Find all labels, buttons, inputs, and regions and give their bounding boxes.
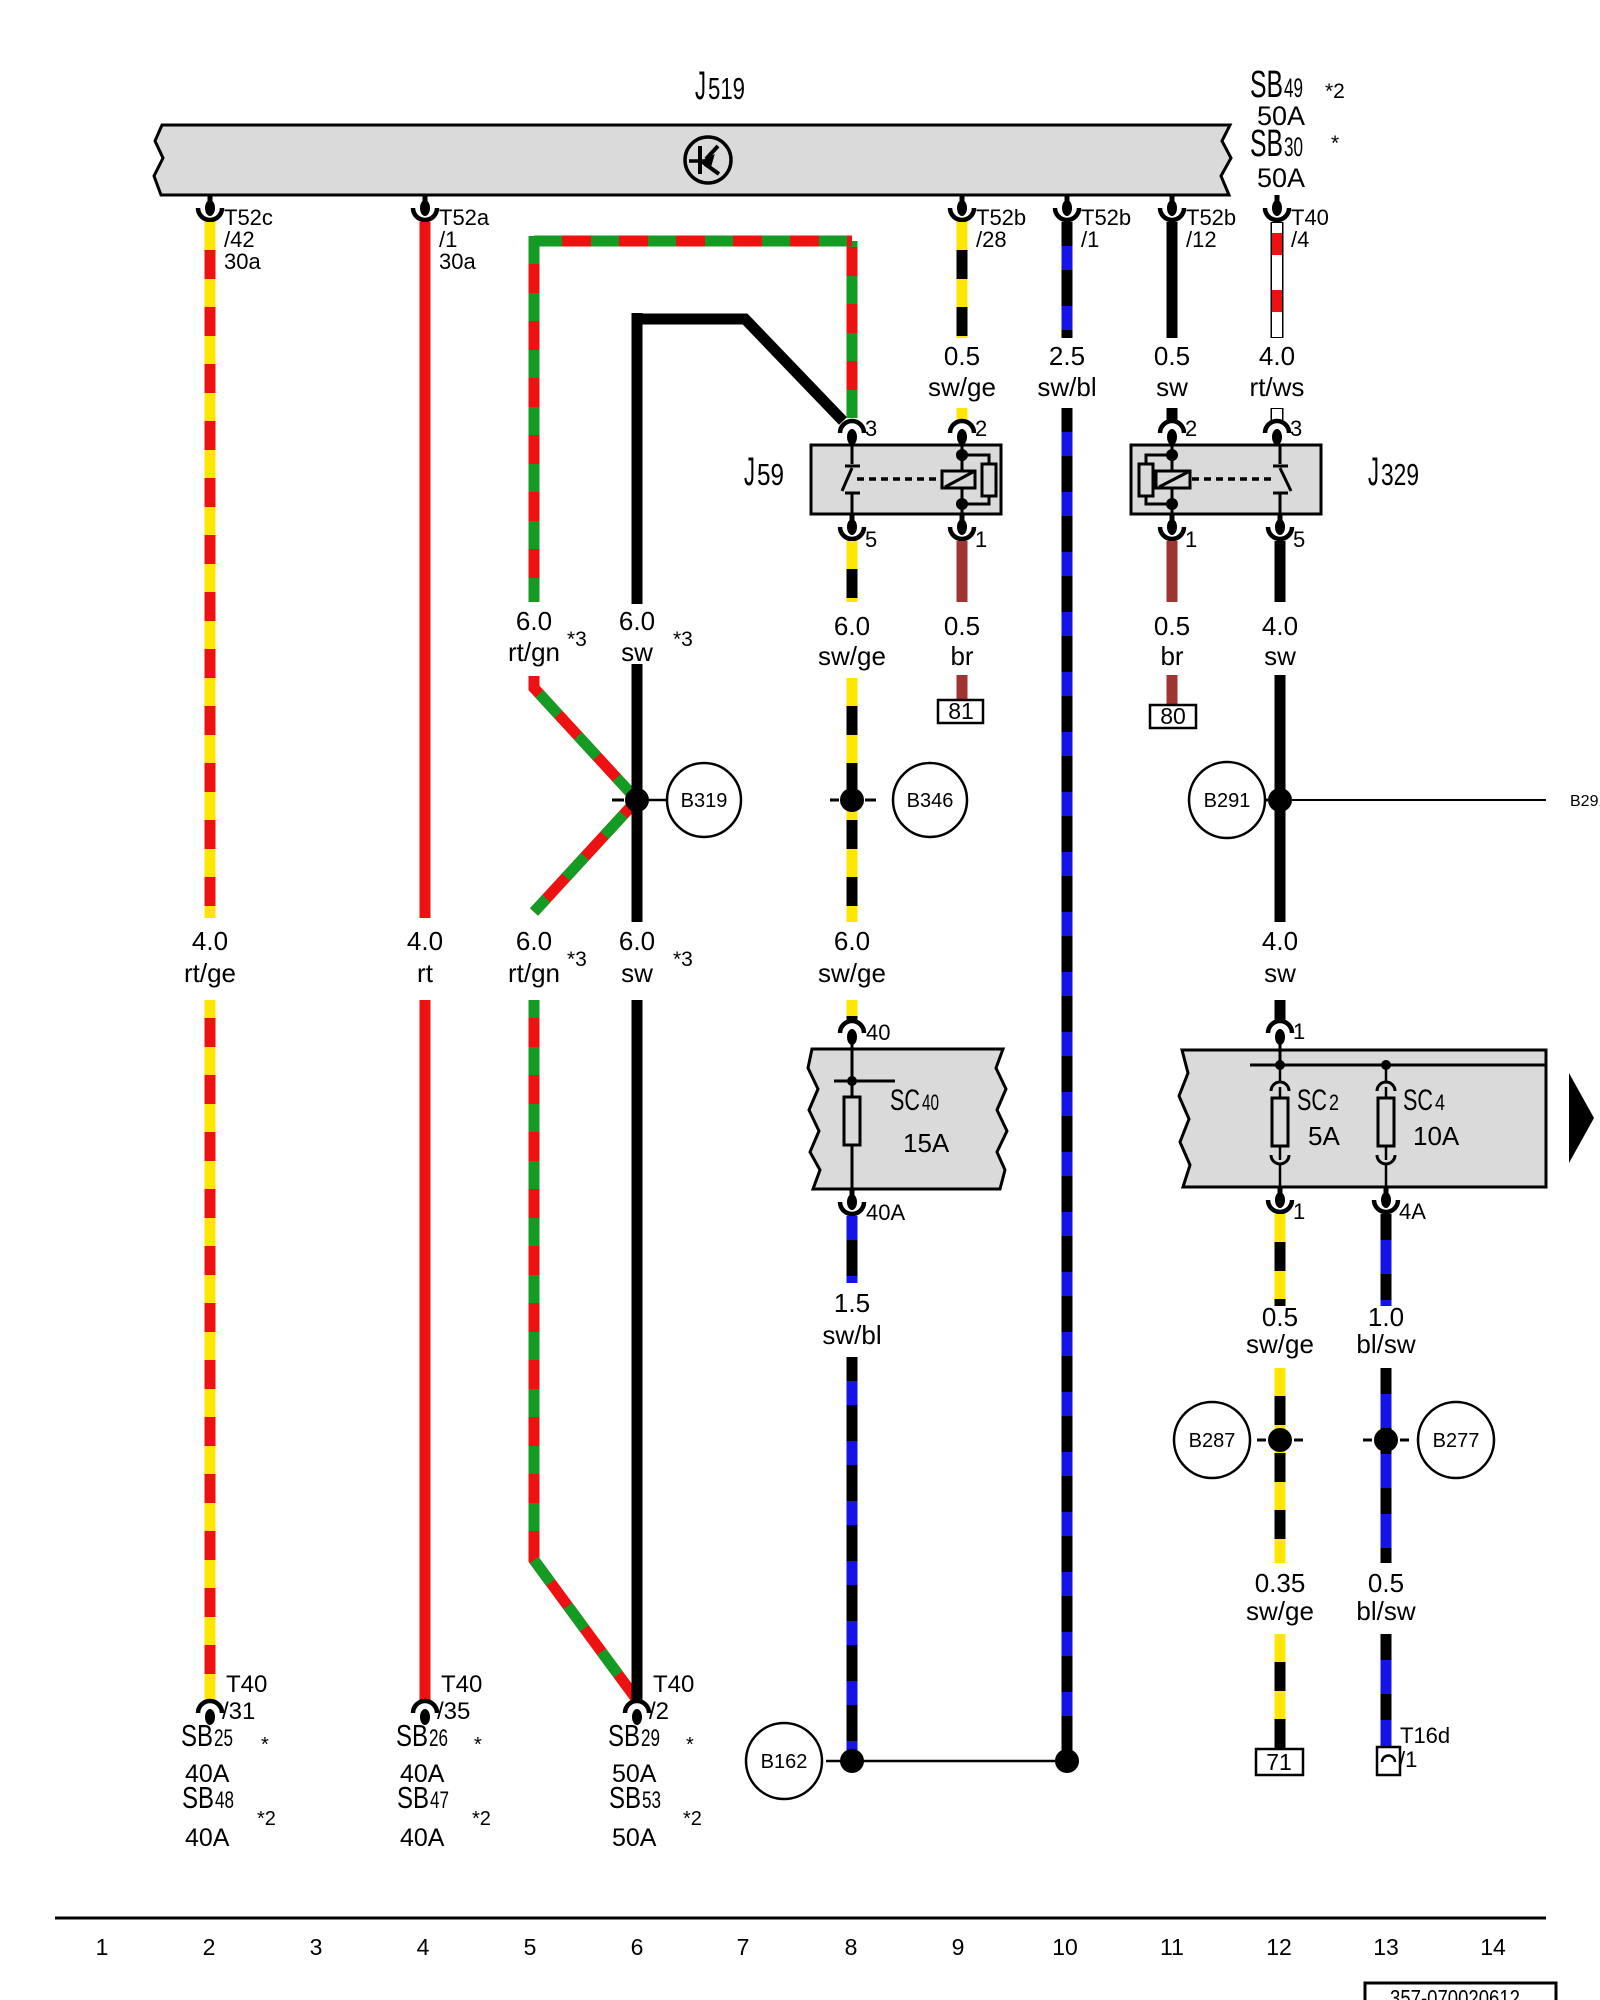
SC panel internal bus (1250, 1037, 1546, 1070)
svg-text:14: 14 (1480, 1934, 1506, 1960)
svg-text:59: 59 (757, 457, 784, 492)
svg-text:50A: 50A (1257, 163, 1305, 193)
wire sw col11 upper segment (1167, 222, 1178, 338)
svg-text:40: 40 (866, 1020, 890, 1045)
J59 pin 3 connector (840, 421, 864, 445)
svg-text:*3: *3 (673, 948, 693, 971)
wire rt/ws col12 upper segment (1271, 222, 1284, 338)
svg-text:sw: sw (621, 958, 653, 988)
terminal K symbol inside J519 (685, 137, 731, 183)
svg-text:SC: SC (890, 1084, 920, 1117)
svg-text:6.0: 6.0 (516, 926, 552, 956)
SC40 internal tap and fuse SC40 (834, 1037, 895, 1189)
svg-text:/1: /1 (1081, 227, 1099, 252)
svg-text:J: J (695, 64, 706, 108)
svg-text:SB: SB (1250, 64, 1283, 106)
svg-text:80: 80 (1160, 703, 1186, 729)
svg-text:*: * (474, 1734, 482, 1756)
svg-text:/1: /1 (1399, 1747, 1417, 1772)
svg-text:T40: T40 (653, 1671, 694, 1698)
svg-text:3: 3 (865, 416, 877, 441)
svg-text:6.0: 6.0 (619, 926, 655, 956)
svg-text:40A: 40A (866, 1200, 905, 1225)
svg-text:25: 25 (214, 1725, 233, 1752)
footer grid line (55, 1917, 1546, 1920)
svg-text:6.0: 6.0 (516, 606, 552, 636)
wire sw col12 stub above SC panel (1275, 1000, 1286, 1020)
svg-text:J: J (1368, 450, 1379, 494)
svg-text:8: 8 (845, 1934, 858, 1960)
svg-text:10: 10 (1052, 1934, 1078, 1960)
svg-text:sw/ge: sw/ge (1246, 1596, 1314, 1626)
svg-text:*2: *2 (472, 1808, 491, 1830)
J59 pin 1 connector (950, 514, 974, 539)
svg-text:4: 4 (1435, 1090, 1445, 1115)
svg-text:4: 4 (417, 1934, 430, 1960)
wire sw col6 top bend to J59 pin3 (637, 319, 843, 421)
wire rt/ws stub to J329 pin3 (1271, 408, 1284, 420)
diagram id box 357-070020612 (1365, 1983, 1556, 2000)
wire sw/bl col10 long vertical (1062, 408, 1073, 1755)
wire sw/ge col8 through node B346 (847, 678, 858, 922)
wire sw/ge stub to J59 pin2 (957, 408, 968, 420)
wire sw/bl col8 below SC40 (847, 1216, 858, 1283)
svg-text:30a: 30a (439, 249, 476, 274)
svg-text:40A: 40A (185, 1824, 230, 1852)
svg-text:1: 1 (1185, 527, 1197, 552)
svg-text:sw/ge: sw/ge (818, 641, 886, 671)
svg-text:sw: sw (621, 637, 653, 667)
wire rt/gn diagonal into node B319 (534, 676, 637, 800)
relay J329 box (1131, 445, 1321, 514)
svg-text:1: 1 (1293, 1199, 1305, 1224)
svg-text:B291: B291 (1204, 790, 1251, 812)
svg-text:T16d: T16d (1400, 1723, 1450, 1748)
wire rt/ge col2 lower segment (205, 1000, 216, 1700)
SC2 pin 1 connector (bottom) (1268, 1187, 1292, 1212)
svg-text:/4: /4 (1291, 227, 1309, 252)
J329 pin 5 connector (1268, 514, 1292, 539)
svg-text:SB: SB (608, 1718, 640, 1753)
svg-text:B277: B277 (1433, 1430, 1480, 1452)
svg-text:9: 9 (952, 1934, 965, 1960)
svg-text:6.0: 6.0 (619, 606, 655, 636)
footer column numbers (96, 1934, 1506, 1960)
svg-text:2: 2 (1185, 416, 1197, 441)
svg-text:/12: /12 (1186, 227, 1217, 252)
svg-text:*2: *2 (683, 1808, 702, 1830)
svg-text:29: 29 (641, 1725, 660, 1752)
J329 pin 3 connector (1265, 421, 1289, 445)
svg-text:2: 2 (975, 416, 987, 441)
svg-text:SB: SB (397, 1780, 429, 1815)
fuse SC2 (1271, 1065, 1289, 1187)
svg-text:13: 13 (1373, 1934, 1399, 1960)
wire rt col4 upper segment (420, 222, 431, 918)
svg-text:5: 5 (865, 527, 877, 552)
svg-text:bl/sw: bl/sw (1356, 1596, 1415, 1626)
terminal box 80 (1150, 703, 1196, 729)
svg-text:B162: B162 (761, 1751, 808, 1773)
fuse panel SC2/SC4 (1179, 1050, 1546, 1187)
terminal box 71 (1256, 1749, 1303, 1775)
node B277 (1363, 1402, 1494, 1478)
node B162 (746, 1723, 1079, 1799)
svg-text:SC: SC (1297, 1084, 1327, 1117)
J329 pin 1 connector (1160, 514, 1184, 539)
wire sw/ge col8 stub above SC40 (847, 1000, 858, 1020)
svg-text:T40: T40 (226, 1671, 267, 1698)
svg-text:sw: sw (1264, 641, 1296, 671)
connector T52a/1 at bus (413, 195, 437, 220)
J59 pin 2 connector (950, 421, 974, 445)
svg-text:sw/ge: sw/ge (928, 372, 996, 402)
svg-text:40: 40 (922, 1090, 939, 1115)
svg-text:4.0: 4.0 (1262, 926, 1298, 956)
svg-text:0.35: 0.35 (1255, 1568, 1306, 1598)
connector T52b/1 at bus (1055, 195, 1079, 220)
connector T52c/42 at bus (198, 195, 222, 220)
svg-text:3: 3 (310, 1934, 323, 1960)
node B346 (830, 763, 967, 837)
connector T40/2 at col6 wire end (625, 1701, 649, 1725)
wire sw stub to J329 pin2 (1167, 408, 1178, 420)
label SB29 50A SB53 50A (608, 1718, 702, 1852)
svg-text:0.5: 0.5 (1154, 611, 1190, 641)
wire sw col6 mid vertical (632, 664, 643, 922)
bus bar J519 (154, 125, 1231, 195)
svg-text:*2: *2 (1325, 80, 1345, 103)
svg-text:SB: SB (609, 1780, 641, 1815)
svg-text:sw: sw (1156, 372, 1188, 402)
connector T40/4 at bus (1265, 195, 1289, 220)
label SB25 40A SB48 40A (181, 1718, 276, 1852)
wire sw col6 lower vertical (632, 1000, 643, 1700)
wire sw/bl col10 upper segment (1062, 222, 1073, 338)
svg-text:3: 3 (1290, 416, 1302, 441)
svg-text:rt: rt (417, 958, 434, 988)
svg-text:10A: 10A (1413, 1121, 1460, 1151)
SC panel pin 1 connector (top) (1268, 1021, 1292, 1045)
svg-text:SB: SB (181, 1718, 213, 1753)
svg-text:47: 47 (430, 1787, 449, 1814)
svg-text:4.0: 4.0 (1262, 611, 1298, 641)
svg-text:rt/gn: rt/gn (508, 637, 560, 667)
label SB26 40A SB47 40A (396, 1718, 491, 1852)
J329 relay coil (1156, 471, 1190, 488)
connector T40/31 at col2 wire end (198, 1701, 222, 1725)
svg-text:7: 7 (737, 1934, 750, 1960)
svg-text:5: 5 (524, 1934, 537, 1960)
svg-text:*3: *3 (567, 628, 587, 651)
svg-text:/28: /28 (976, 227, 1007, 252)
svg-text:50A: 50A (612, 1824, 657, 1852)
J329 actuation dashed line (1192, 477, 1272, 481)
svg-text:/31: /31 (222, 1698, 255, 1725)
svg-text:SC: SC (1403, 1084, 1433, 1117)
wire bl/sw col13 below SC4 (1381, 1214, 1392, 1306)
svg-text:1.0: 1.0 (1368, 1302, 1404, 1332)
connector T52b/28 at bus (950, 195, 974, 220)
svg-text:rt/ws: rt/ws (1250, 372, 1305, 402)
svg-text:4.0: 4.0 (407, 926, 443, 956)
svg-text:rt/gn: rt/gn (508, 958, 560, 988)
svg-text:30: 30 (1284, 132, 1303, 162)
svg-text:26: 26 (429, 1725, 448, 1752)
svg-text:0.5: 0.5 (1368, 1568, 1404, 1598)
svg-text:48: 48 (215, 1787, 234, 1814)
wire sw col12 through node B291 (1275, 675, 1286, 922)
svg-text:4.0: 4.0 (1259, 341, 1295, 371)
J59 pin 5 connector (840, 514, 864, 539)
wire rt/gn top run from col5 to J59 pin3 (534, 236, 852, 602)
svg-text:sw/bl: sw/bl (822, 1320, 881, 1350)
wire sw/ge col8 below J59 pin5 (847, 541, 858, 602)
svg-text:49: 49 (1284, 73, 1303, 103)
svg-text:T40: T40 (441, 1671, 482, 1698)
svg-text:SB: SB (1250, 123, 1283, 165)
svg-text:*: * (261, 1734, 269, 1756)
node B287 (1174, 1402, 1303, 1478)
wire rt/gn diagonal out of node B319 (534, 800, 637, 912)
node B319 (612, 763, 741, 837)
svg-text:15A: 15A (903, 1128, 950, 1158)
wire rt col4 lower segment (420, 1000, 431, 1700)
J59 actuation dashed line (857, 477, 940, 481)
svg-text:br: br (950, 641, 973, 671)
svg-text:6: 6 (631, 1934, 644, 1960)
svg-text:*: * (686, 1734, 694, 1756)
svg-text:1: 1 (975, 527, 987, 552)
SC40 pin 40A connector (840, 1189, 864, 1214)
connector T52b/12 at bus (1160, 195, 1184, 220)
svg-text:12: 12 (1266, 1934, 1292, 1960)
J329 coil resistor branch (1139, 445, 1178, 514)
svg-text:1.5: 1.5 (834, 1288, 870, 1318)
svg-text:11: 11 (1160, 1934, 1184, 1960)
svg-text:4A: 4A (1399, 1199, 1426, 1224)
svg-text:bl/sw: bl/sw (1356, 1329, 1415, 1359)
svg-text:5: 5 (1293, 527, 1305, 552)
svg-text:B319: B319 (681, 790, 728, 812)
wire sw col6 upper vertical (632, 313, 643, 604)
J329 pin 2 connector (1160, 421, 1184, 445)
fuse box SC40 (808, 1049, 1007, 1189)
wire br below J59 pin1 (957, 541, 968, 602)
svg-text:0.5: 0.5 (944, 611, 980, 641)
svg-text:sw: sw (1264, 958, 1296, 988)
svg-text:*3: *3 (673, 628, 693, 651)
svg-text:br: br (1160, 641, 1183, 671)
wire sw/ge col9 upper segment (957, 222, 968, 338)
relay J59 box (811, 445, 1001, 514)
svg-text:329: 329 (1381, 457, 1419, 492)
connector T16d/1 (1377, 1723, 1450, 1775)
continuation arrow right (1569, 1073, 1594, 1163)
svg-text:6.0: 6.0 (834, 926, 870, 956)
svg-text:B346: B346 (907, 790, 954, 812)
svg-text:sw/ge: sw/ge (818, 958, 886, 988)
svg-text:1: 1 (1293, 1019, 1305, 1044)
svg-text:53: 53 (642, 1787, 661, 1814)
wire br stub to terminal 81 (957, 675, 968, 702)
svg-text:81: 81 (948, 698, 974, 724)
wire rt/ge col2 upper segment (205, 222, 216, 918)
svg-text:rt/ge: rt/ge (184, 958, 236, 988)
svg-text:0.5: 0.5 (1154, 341, 1190, 371)
svg-text:*2: *2 (257, 1808, 276, 1830)
svg-text:J: J (744, 450, 755, 494)
svg-text:sw/ge: sw/ge (1246, 1329, 1314, 1359)
svg-text:519: 519 (708, 71, 745, 106)
svg-text:40A: 40A (400, 1824, 445, 1852)
SC4 pin 4A connector (bottom) (1374, 1187, 1398, 1212)
svg-text:2: 2 (203, 1934, 216, 1960)
svg-text:0.5: 0.5 (944, 341, 980, 371)
node B291 (1189, 762, 1600, 838)
wire rt/gn lower run to T40/2 (534, 1000, 637, 1700)
wire sw/bl col8 down to B162 (847, 1357, 858, 1755)
svg-text:71: 71 (1266, 1749, 1292, 1775)
SC40 pin 40 connector (840, 1021, 864, 1045)
svg-text:2.5: 2.5 (1049, 341, 1085, 371)
wire sw col12 below J329 pin5 (1275, 541, 1286, 602)
J59 relay coil (942, 471, 975, 488)
wire sw/ge col12 below SC2 (1275, 1214, 1286, 1306)
svg-text:*: * (1331, 132, 1339, 155)
svg-text:0.5: 0.5 (1262, 1302, 1298, 1332)
J59 coil resistor branch (956, 445, 996, 514)
wire br below J329 pin1 (1167, 541, 1178, 602)
svg-text:5A: 5A (1308, 1121, 1340, 1151)
J59 switch contact (842, 445, 860, 514)
svg-text:SB: SB (396, 1718, 428, 1753)
svg-text:*3: *3 (567, 948, 587, 971)
fuse SC4 (1377, 1065, 1395, 1187)
wire bl/sw col13 through node B277 (1381, 1368, 1392, 1563)
wire br stub to terminal 80 (1167, 675, 1178, 707)
terminal box 81 (938, 698, 983, 724)
J329 switch contact (1273, 445, 1291, 514)
svg-text:2: 2 (1329, 1090, 1339, 1115)
svg-text:1: 1 (96, 1934, 109, 1960)
wire bl/sw col13 stub to connector T16d (1381, 1634, 1392, 1747)
connector T40/35 at col4 wire end (413, 1701, 437, 1725)
svg-text:sw/bl: sw/bl (1037, 372, 1096, 402)
svg-text:/35: /35 (437, 1698, 470, 1725)
svg-text:4.0: 4.0 (192, 926, 228, 956)
svg-text:6.0: 6.0 (834, 611, 870, 641)
svg-text:B291: B291 (1570, 793, 1600, 810)
svg-text:/2: /2 (649, 1698, 669, 1725)
wire sw/ge col12 through node B287 (1275, 1368, 1286, 1563)
svg-text:SB: SB (182, 1780, 214, 1815)
svg-text:30a: 30a (224, 249, 261, 274)
svg-text:B287: B287 (1189, 1430, 1236, 1452)
svg-text:357-070020612: 357-070020612 (1390, 1985, 1520, 2000)
wire sw/ge col12 stub to terminal 71 (1275, 1634, 1286, 1750)
